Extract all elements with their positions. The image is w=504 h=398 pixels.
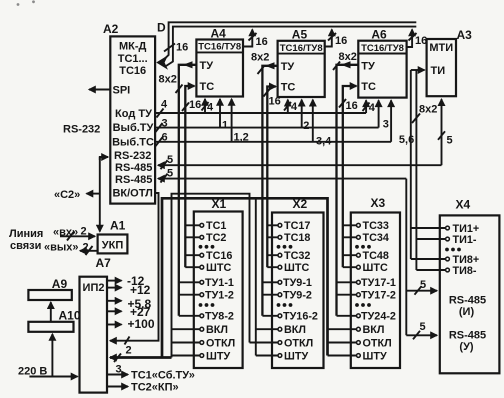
svg-text:ТУ16-2: ТУ16-2 [283, 311, 318, 323]
svg-text:8х2: 8х2 [251, 52, 269, 64]
svg-text:5: 5 [420, 321, 426, 333]
label X2 [293, 197, 308, 211]
svg-text:RS-232: RS-232 [63, 124, 100, 136]
X4 pin labels [449, 223, 486, 353]
wire 220V input [29, 376, 77, 378]
wire TI8- stub [416, 269, 446, 271]
svg-text:2: 2 [303, 120, 309, 132]
svg-text:RS-485: RS-485 [115, 162, 152, 174]
block A6 TC16/TU8 [358, 41, 406, 98]
svg-text:А5: А5 [292, 27, 308, 41]
svg-text:ТС: ТС [361, 81, 376, 93]
wire A4 pin Vyb.TU 1 [220, 99, 228, 132]
svg-text:ТУ24-2: ТУ24-2 [361, 311, 396, 323]
wire IP2 out +12 [107, 283, 151, 297]
block A4 TC16/TU8 [196, 40, 243, 97]
svg-text:6: 6 [162, 131, 168, 143]
svg-text:5: 5 [167, 167, 173, 179]
svg-text:A7: A7 [96, 256, 112, 270]
svg-text:2: 2 [83, 242, 89, 254]
block A3 MTI [427, 39, 456, 96]
wire 220V branch to A10 [51, 334, 53, 377]
wire A4 pin Kod TU 4 [202, 99, 215, 114]
svg-text:ВКЛ: ВКЛ [206, 324, 228, 336]
wire A5 bus up 16 [325, 30, 348, 48]
wire A3 TI input [411, 69, 425, 71]
wire SPI [89, 89, 110, 91]
svg-text:ВК/ОТЛ: ВК/ОТЛ [112, 188, 152, 200]
svg-text:16: 16 [415, 35, 427, 47]
wire A5 pin Vyb.TU 2 [302, 100, 310, 132]
svg-text:ТУ1-1: ТУ1-1 [205, 277, 234, 289]
svg-text:«вх»: «вх» [53, 226, 78, 238]
svg-text:ТС33: ТС33 [363, 220, 389, 232]
wire to C2 [87, 193, 100, 195]
wire VKL/OTKL/SHTU bus over-top line 1 [162, 198, 328, 357]
svg-text:4: 4 [291, 101, 298, 113]
svg-text:RS-485: RS-485 [449, 295, 486, 307]
svg-text:ОТКЛ: ОТКЛ [363, 337, 392, 349]
wire thick bus to IP2 3 [110, 354, 172, 376]
wire X1 SHTU tap [172, 355, 201, 357]
wire A6 pin Vyb.TC 5,6 [391, 100, 414, 146]
label A9 [52, 277, 68, 291]
svg-text:ТС1«Сб.ТУ»: ТС1«Сб.ТУ» [131, 370, 195, 382]
wire X1 TU taps [179, 282, 200, 316]
svg-text:ТУ17-1: ТУ17-1 [361, 277, 396, 289]
svg-text:ТУ1-2: ТУ1-2 [205, 290, 234, 302]
wire A6 pin Vyb.TU 3 [379, 100, 389, 130]
wire A3 RS-485 5 up [438, 99, 453, 165]
svg-text:МК-Д: МК-Д [119, 41, 147, 53]
svg-text:А10: А10 [59, 308, 81, 322]
svg-text:ТС32: ТС32 [284, 250, 310, 262]
bus D top line 2 [166, 27, 416, 66]
svg-text:ТС16: ТС16 [119, 65, 146, 77]
svg-text:ТУ17-2: ТУ17-2 [361, 290, 396, 302]
svg-text:ТУ: ТУ [361, 61, 375, 73]
svg-text:УКП: УКП [102, 240, 124, 252]
svg-text:ТС17: ТС17 [284, 220, 310, 232]
svg-text:ШТУ: ШТУ [284, 350, 308, 362]
node C2 label [54, 189, 80, 201]
svg-text:8х2: 8х2 [339, 51, 357, 63]
svg-text:Х4: Х4 [456, 198, 471, 212]
label RS-232 external [63, 124, 100, 136]
svg-text:ТС2«КП»: ТС2«КП» [131, 382, 179, 394]
svg-text:ТС16/ТУ8: ТС16/ТУ8 [280, 43, 323, 54]
wire Vyb.TU row 3 [155, 117, 379, 132]
label 220V [18, 366, 47, 378]
bus width tick 16 on D legs [164, 42, 188, 54]
svg-text:+100: +100 [128, 317, 155, 331]
wire X1 VKL tap [172, 328, 201, 330]
label X1 [212, 197, 227, 211]
svg-text:4: 4 [161, 99, 168, 111]
svg-text:ТУ9-1: ТУ9-1 [283, 277, 312, 289]
svg-text:ТС18: ТС18 [284, 232, 310, 244]
label A3 [457, 28, 473, 42]
svg-text:ОТКЛ: ОТКЛ [206, 337, 235, 349]
svg-text:2: 2 [81, 226, 87, 238]
wire IP2 out TC2 KP [107, 382, 179, 394]
wire A6 pin Kod TU 4 [363, 100, 376, 114]
svg-text:ОТКЛ: ОТКЛ [284, 337, 313, 349]
svg-text:5: 5 [420, 279, 426, 291]
label A4 [211, 27, 227, 41]
wire X2 TC taps [267, 225, 278, 267]
svg-text:8х2: 8х2 [159, 74, 177, 86]
X2 pin labels [283, 220, 318, 362]
svg-text:А6: А6 [371, 28, 387, 42]
svg-text:3: 3 [383, 118, 389, 130]
svg-text:16: 16 [269, 96, 281, 108]
wire A6 TU bus 8x2 [333, 51, 358, 316]
wire X2 SHTU tap [256, 355, 278, 357]
connector X1 [194, 212, 243, 369]
wire X2 TU taps [262, 282, 278, 316]
wire X1 TC taps [185, 225, 200, 267]
wire X1 OTKL tap [172, 342, 201, 344]
svg-text:A1: A1 [110, 219, 126, 233]
wire bus over-top line 2 [172, 194, 250, 358]
wire IP2 out -12 [107, 274, 145, 288]
svg-text:5,6: 5,6 [399, 134, 414, 146]
svg-text:A2: A2 [103, 22, 119, 36]
X1 ellipsis dots [199, 245, 215, 307]
svg-text:4: 4 [369, 102, 376, 114]
wire A6 TC bus 16 [339, 86, 358, 267]
svg-text:4: 4 [207, 102, 214, 114]
block A10 [28, 322, 73, 332]
svg-text:ШТУ: ШТУ [363, 350, 387, 362]
X1 pin circles [200, 223, 204, 357]
svg-text:5: 5 [167, 154, 173, 166]
svg-text:D: D [157, 21, 166, 35]
bus D top line 1 [163, 22, 417, 61]
X3 pin labels [361, 220, 396, 362]
label A7 [96, 256, 112, 270]
block A5 TC16/TU8 [278, 41, 325, 97]
wire TI8+ stub [411, 258, 446, 260]
block A9 [28, 290, 71, 300]
svg-text:RS-485: RS-485 [449, 330, 486, 342]
svg-text:ТИ8-: ТИ8- [453, 265, 477, 277]
svg-text:Х3: Х3 [371, 196, 386, 210]
svg-text:ТУ8-2: ТУ8-2 [205, 311, 234, 323]
svg-text:+12: +12 [130, 283, 151, 297]
svg-text:ШТУ: ШТУ [206, 350, 230, 362]
wire A5 TU bus 8x2 [251, 52, 278, 316]
svg-text:А9: А9 [52, 277, 68, 291]
wire IP2 out +27 [107, 305, 151, 319]
block IP2 power supply [80, 277, 108, 393]
wire X3 OTKL tap [328, 342, 357, 344]
label A1 [110, 219, 126, 233]
wire A4 pin Vyb.TC 1,2 [232, 99, 249, 144]
svg-text:2: 2 [126, 344, 132, 356]
svg-text:ШТС: ШТС [206, 262, 231, 274]
wire TI1+ stub [411, 227, 446, 229]
wire X2 OTKL tap [250, 342, 279, 344]
svg-text:ТС16/ТУ8: ТС16/ТУ8 [361, 43, 404, 54]
label X4 [456, 198, 471, 212]
connector X4 [440, 215, 500, 373]
wire IP2 out TC1 Sb.TU [107, 370, 195, 382]
svg-text:SPI: SPI [113, 85, 131, 97]
svg-text:(И): (И) [459, 306, 475, 318]
node D label [157, 21, 166, 35]
svg-text:ТС1...: ТС1... [118, 53, 148, 65]
wire RS-485 I to X4 5 [406, 279, 437, 295]
wire bus leg X2 [255, 198, 257, 355]
svg-text:8х2: 8х2 [419, 104, 437, 116]
svg-text:связи: связи [10, 240, 41, 252]
svg-text:«С2»: «С2» [54, 189, 80, 201]
wire X3 VKL tap [328, 328, 357, 330]
wire A4 TC bus 16 [182, 86, 201, 267]
wire A4 bus up 16 [243, 30, 268, 49]
svg-text:«вых»: «вых» [44, 241, 79, 253]
wire RS-485 row 2 [158, 167, 406, 182]
wire X3 SHTU tap [328, 355, 357, 357]
block A2 controller [110, 36, 155, 203]
svg-text:5: 5 [447, 135, 453, 147]
wire A5 pin Vyb.TC 3,4 [313, 100, 332, 148]
bus D arrow into A2 [156, 55, 168, 70]
label A5 [292, 27, 308, 41]
svg-text:16: 16 [256, 36, 268, 48]
X3 ellipsis dots [355, 245, 371, 307]
wire A6 bus up 16 [407, 30, 428, 48]
wire C2/UKP vertical [99, 157, 101, 232]
svg-text:ТУ9-2: ТУ9-2 [283, 290, 312, 302]
svg-text:RS-232: RS-232 [114, 150, 151, 162]
wire RS-485 U to X4 5 [406, 321, 437, 339]
svg-text:ТС16: ТС16 [206, 250, 232, 262]
svg-text:Выб.ТС: Выб.ТС [112, 137, 154, 149]
X2 pin circles [278, 223, 282, 357]
svg-text:ШТС: ШТС [284, 262, 309, 274]
wire RS-485 down right side [405, 179, 407, 336]
X2 ellipsis dots [277, 245, 293, 307]
svg-text:16: 16 [176, 42, 188, 54]
svg-text:RS-485: RS-485 [115, 174, 152, 186]
label A10 [59, 308, 81, 322]
label A6 [371, 28, 387, 42]
svg-text:16: 16 [189, 99, 201, 111]
wire RS-485 row 1 to A3 [158, 154, 442, 169]
wire IP2 out +5,8 [107, 297, 152, 311]
svg-text:ТУ: ТУ [200, 60, 214, 72]
wire A10 to A9 [50, 302, 52, 322]
wire A5 pin Kod TU 4 [284, 100, 298, 113]
wire IP2 out +100 [107, 317, 155, 331]
wire Kod TU row 4 [155, 99, 366, 118]
svg-text:Линия: Линия [9, 228, 43, 240]
svg-text:ТС: ТС [281, 82, 296, 94]
wire TI1- stub [416, 238, 446, 240]
X1 pin labels [205, 220, 235, 362]
svg-text:ТС: ТС [200, 81, 215, 93]
wire A4 TU bus 8x2 [159, 61, 197, 316]
wire vyh output [80, 246, 98, 255]
svg-text:ШТС: ШТС [363, 262, 388, 274]
X4 ellipsis dots [445, 248, 461, 252]
scan artifacts [17, 0, 35, 5]
svg-text:1: 1 [222, 120, 228, 132]
svg-text:МТИ: МТИ [429, 42, 453, 54]
wire A5 TC bus 16 [264, 87, 281, 268]
svg-text:ТС48: ТС48 [363, 250, 389, 262]
wire vh input [60, 232, 95, 241]
svg-text:Код ТУ: Код ТУ [115, 108, 152, 120]
wire X3 TU taps [337, 282, 357, 316]
wire Vyb.TC row 6 [155, 131, 391, 146]
svg-text:ТС16/ТУ8: ТС16/ТУ8 [198, 42, 241, 53]
wire X2 VKL tap [256, 328, 278, 330]
label vyh [44, 241, 89, 253]
svg-text:16: 16 [346, 100, 358, 112]
wire RS-232 to A2 [100, 157, 108, 160]
svg-text:ТУ: ТУ [281, 61, 295, 73]
wire VK/OTL A2 to IP2 2 [110, 193, 159, 356]
label line of communication [9, 228, 43, 252]
block A1 UKP [98, 235, 128, 254]
svg-text:ИП2: ИП2 [83, 282, 105, 294]
svg-text:(У): (У) [459, 341, 474, 353]
connector X3 [351, 213, 400, 369]
X4 pin circles [446, 226, 450, 272]
svg-text:3: 3 [162, 117, 168, 129]
svg-text:ТС1: ТС1 [206, 220, 226, 232]
svg-text:ТС2: ТС2 [206, 232, 226, 244]
svg-text:ТИ1-: ТИ1- [453, 234, 477, 246]
svg-text:ТС34: ТС34 [363, 232, 389, 244]
svg-text:А3: А3 [457, 28, 473, 42]
svg-text:ТИ: ТИ [431, 65, 446, 77]
svg-text:ВКЛ: ВКЛ [363, 324, 385, 336]
svg-text:Выб.ТУ: Выб.ТУ [113, 122, 154, 134]
wire TI bus pair 8x2 [411, 70, 438, 270]
X3 pin circles [357, 223, 361, 357]
wire X3 TC taps [343, 225, 357, 267]
label A2 [103, 22, 119, 36]
A2 pin labels [112, 41, 154, 200]
svg-text:ВКЛ: ВКЛ [284, 324, 306, 336]
label vh [53, 226, 87, 239]
svg-text:16: 16 [335, 35, 347, 47]
label X3 [371, 196, 386, 210]
svg-text:А4: А4 [211, 27, 227, 41]
connector X2 [272, 213, 324, 369]
